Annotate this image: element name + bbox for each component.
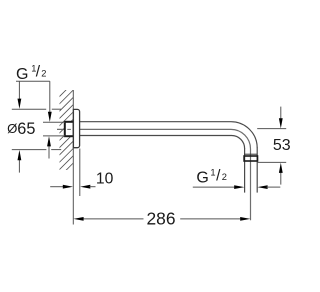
G 1/2 (top) label text xyxy=(16,63,46,83)
Ø65 top extension line xyxy=(12,108,46,110)
svg-text:G: G xyxy=(196,169,208,186)
svg-text:G: G xyxy=(16,66,28,83)
286 dim line with arrows xyxy=(83,218,144,220)
svg-text:/: / xyxy=(216,167,221,184)
wall boss (thread square) xyxy=(65,122,74,136)
outlet pipe left edge xyxy=(244,148,246,193)
G1/2 bottom leader line with right arrow to outlet left edge xyxy=(193,186,235,188)
centerline of arm (horizontal) xyxy=(57,129,251,220)
wall hatching xyxy=(52,76,80,184)
wall surface line / extension line down to 286 dim xyxy=(72,90,74,225)
svg-text:65: 65 xyxy=(17,120,35,138)
G1/2 bottom right arrow (to outlet right edge) xyxy=(257,185,267,189)
flange face extension line xyxy=(79,149,81,197)
G1/2 thread dim line upper segment with down arrow (to pipe top) xyxy=(49,81,51,112)
53 bottom extension line (collar bottom extended) xyxy=(258,161,287,163)
pipe arm top edge + outer bend xyxy=(80,122,258,148)
svg-text:2: 2 xyxy=(41,69,46,79)
10 dim line left arrow (at wall surface) xyxy=(50,186,63,188)
G1/2 top leader: underline xyxy=(16,80,50,82)
G1/2 thread dim line lower segment with up arrow (to pipe bottom ext) xyxy=(48,146,50,159)
pipe top extension line (left of boss) xyxy=(43,121,65,123)
Ø65 dim line upper segment with down arrow xyxy=(18,81,20,99)
pipe bottom extension line (left of boss) xyxy=(43,135,65,137)
centerline dash inside boss xyxy=(67,128,71,130)
G 1/2 (bottom) label text xyxy=(196,167,226,186)
svg-text:/: / xyxy=(36,64,41,81)
thread collar on outlet xyxy=(244,153,257,155)
svg-text:53: 53 xyxy=(273,137,291,154)
53 dim line lower segment with up arrow xyxy=(280,172,282,185)
svg-text:2: 2 xyxy=(222,172,227,182)
10 dim line right arrow (at flange face) xyxy=(80,185,90,189)
Ø65 dim line lower segment with up arrow xyxy=(18,159,20,173)
53 top extension line (centerline extended) xyxy=(257,128,286,130)
outlet pipe right edge xyxy=(256,148,258,193)
pipe arm bottom edge + inner bend xyxy=(80,136,245,149)
53 dim line upper segment with down arrow xyxy=(280,107,282,119)
Ø65 bottom extension line xyxy=(12,149,47,151)
flange (escutcheon) xyxy=(73,109,79,147)
svg-text:Ø: Ø xyxy=(7,121,17,136)
svg-text:286: 286 xyxy=(147,208,176,228)
svg-text:1: 1 xyxy=(210,167,215,177)
svg-text:10: 10 xyxy=(96,171,114,188)
